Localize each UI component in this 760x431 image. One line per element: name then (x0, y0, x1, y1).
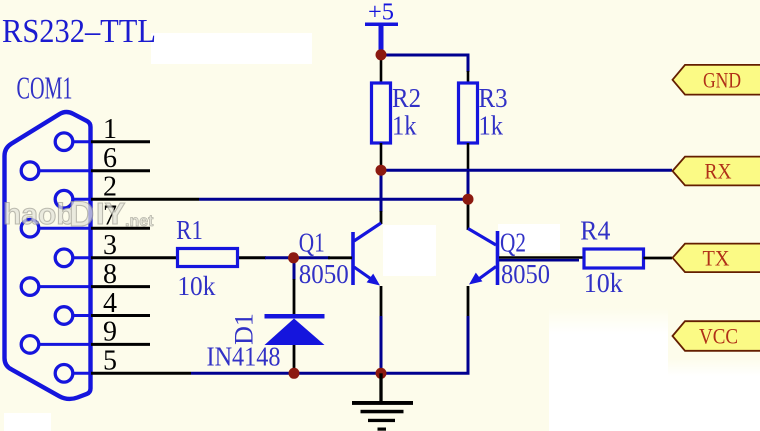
wire Q1 emitter to rail (380, 316, 383, 373)
R2 bottom pin (380, 143, 383, 170)
white patch between transistors (383, 225, 436, 276)
svg-text:R3: R3 (479, 83, 508, 113)
COM1 pin 8 blue lead (38, 285, 92, 288)
svg-text:RX: RX (705, 159, 732, 184)
COM1 pin 7 circle (21, 219, 39, 237)
white patch bottom-right right part (668, 358, 760, 431)
COM1 pin 3 stub / wire to R1 (91, 256, 178, 259)
connector COM1 DB9 outline (5, 112, 91, 399)
svg-text:4: 4 (103, 288, 117, 319)
diode D1 triangle (265, 319, 325, 346)
junction RX node (376, 165, 387, 176)
svg-text:VCC: VCC (699, 324, 738, 349)
ground bar 1 (352, 401, 413, 405)
wire ground rail (191, 316, 468, 373)
junction ground rail node (376, 368, 387, 379)
flag VCC (673, 321, 760, 351)
white patch bottom-right left part (549, 308, 668, 431)
svg-text:+5: +5 (368, 0, 394, 26)
transistor Q1 emitter slant (354, 267, 374, 281)
transistor Q1 base pin (328, 256, 352, 259)
transistor Q2 emitter slant (476, 267, 496, 282)
svg-text:GND: GND (703, 67, 741, 92)
COM1 pin 4 blue lead (72, 314, 92, 317)
transistor Q2 emitter arrow (469, 273, 482, 285)
COM1 pin 5 blue lead (72, 372, 92, 375)
svg-text:8050: 8050 (299, 259, 349, 289)
COM1 pin 8 stub (91, 285, 150, 288)
COM1 pin 2 stub (91, 198, 199, 201)
white patch top (151, 33, 312, 64)
COM1 pin 6 blue lead (38, 169, 92, 172)
svg-text:TX: TX (703, 245, 730, 270)
diode D1 top pin (293, 279, 296, 315)
svg-text:IY: IY (96, 196, 126, 231)
svg-text:RS232–TTL: RS232–TTL (2, 13, 156, 50)
COM1 pin 5 stub (91, 372, 191, 375)
COM1 pin 7 stub (91, 227, 150, 230)
diode D1 bottom pin (293, 345, 296, 373)
COM1 pin 3 blue lead (72, 256, 92, 259)
svg-text:R2: R2 (392, 83, 421, 113)
COM1 pin 9 blue lead (38, 343, 92, 346)
svg-text:6: 6 (103, 143, 117, 174)
COM1 pin 9 circle (21, 336, 39, 354)
svg-text:R4: R4 (580, 216, 610, 246)
wire +5 node to R3 top (381, 55, 468, 72)
svg-text:COM1: COM1 (17, 70, 73, 106)
R2 top pin (380, 55, 383, 84)
ground bar 2 (361, 410, 404, 414)
svg-text:5: 5 (103, 346, 117, 377)
svg-text:3: 3 (103, 230, 117, 261)
svg-text:D: D (69, 195, 94, 234)
ground bar 4 (378, 428, 387, 431)
svg-text:10k: 10k (177, 271, 215, 301)
svg-text:Q1: Q1 (299, 227, 325, 257)
wire R4 to TX flag (644, 257, 673, 260)
transistor Q1 emitter pin (380, 286, 383, 316)
COM1 pin 8 circle (21, 278, 39, 296)
wire R3 to pin2 node (467, 172, 470, 199)
COM1 pin 4 circle (55, 307, 73, 325)
transistor Q1 collector pin (380, 211, 383, 224)
power +5 bar (365, 23, 398, 27)
svg-text:1k: 1k (479, 111, 504, 141)
COM1 pin 1 circle (55, 133, 73, 151)
junction D1 ground node (289, 368, 300, 379)
svg-text:1k: 1k (392, 111, 417, 141)
flag TX (673, 244, 760, 273)
COM1 pin 3 circle (55, 249, 73, 267)
svg-text:.net: .net (125, 213, 154, 230)
COM1 pin 6 circle (21, 162, 39, 180)
COM1 pin 2 circle (55, 190, 73, 208)
transistor Q2 base bar (496, 231, 500, 285)
transistor Q1 collector slant (354, 223, 381, 241)
flag GND (673, 65, 760, 95)
watermark haobDIY.net (3, 195, 154, 234)
COM1 pin 1 stub (91, 140, 150, 143)
wire R1 to Q1 base node (265, 256, 330, 259)
transistor Q1 base bar (351, 232, 355, 285)
COM1 pin 6 stub (91, 169, 150, 172)
COM1 pin 5 circle (55, 365, 73, 383)
transistor Q2 emitter pin (467, 286, 470, 316)
COM1 pin 4 stub (91, 314, 150, 317)
junction +5 node (376, 49, 387, 60)
COM1 pin 7 blue lead (38, 227, 92, 230)
svg-text:1: 1 (103, 114, 117, 145)
resistor R4 body (584, 249, 644, 268)
transistor Q1 emitter arrow (367, 274, 380, 286)
R3 top pin (467, 71, 470, 84)
flag RX (673, 157, 760, 186)
white patch behind Q2 label (498, 224, 560, 253)
COM1 pin 1 blue lead (72, 140, 92, 143)
diode D1 cathode bar (265, 314, 325, 319)
R3 bottom pin (467, 143, 470, 173)
transistor Q2 collector pin (467, 199, 470, 230)
svg-text:10k: 10k (584, 268, 623, 298)
resistor R3 body (459, 83, 478, 143)
svg-text:D1: D1 (230, 313, 259, 345)
svg-text:9: 9 (103, 317, 117, 348)
R1 right pin (237, 256, 266, 259)
junction pin2/R3 node (463, 194, 474, 205)
COM1 pin 2 blue lead (72, 198, 92, 201)
resistor R2 body (372, 83, 391, 143)
junction Q1 base node (288, 252, 299, 263)
power +5 lead (379, 25, 384, 55)
white patch bottom-left (4, 413, 51, 431)
svg-text:haob: haob (3, 198, 75, 231)
transistor Q2 base pin (499, 256, 584, 259)
svg-text:8: 8 (103, 259, 117, 290)
svg-text:R1: R1 (176, 215, 203, 245)
wire R2 node down to Q1 collector (380, 170, 383, 212)
ground stem (379, 373, 382, 402)
transistor Q2 collector slant (468, 229, 496, 246)
svg-text:Q2: Q2 (500, 227, 526, 257)
wire node to D1 (293, 258, 296, 280)
svg-text:IN4148: IN4148 (207, 342, 281, 372)
wire pin2 to R3 node (199, 198, 468, 201)
COM1 pin 9 stub (91, 343, 150, 346)
wire RX net (381, 169, 672, 172)
resistor R1 body (178, 249, 238, 267)
wire Q2 base to R4 (499, 259, 579, 262)
ground bar 3 (368, 419, 395, 422)
svg-text:8050: 8050 (501, 259, 550, 289)
